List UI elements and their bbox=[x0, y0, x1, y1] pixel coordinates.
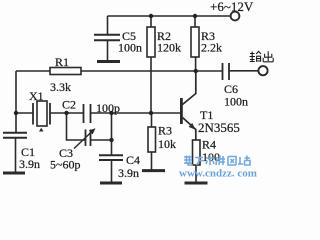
capacitor C5 bbox=[94, 16, 120, 60]
resistor R3 (10k) bbox=[148, 113, 156, 170]
crystal X1 mark bbox=[39, 128, 44, 132]
resistor R1 bbox=[50, 68, 81, 75]
svg-text:100p: 100p bbox=[96, 101, 120, 115]
capacitor C1 bbox=[3, 133, 27, 172]
transistor T1 emitter lead bbox=[183, 118, 196, 141]
transistor T1 emitter arrowhead bbox=[189, 123, 196, 130]
node dot rail/R3 bbox=[193, 14, 197, 18]
node dot rail/R2 bbox=[149, 14, 153, 18]
arrowhead of C3 variable arrow bbox=[89, 128, 96, 134]
ground (R4) bbox=[185, 182, 208, 185]
svg-text:100: 100 bbox=[202, 150, 220, 164]
svg-text:R3: R3 bbox=[158, 124, 172, 138]
wire R1 line / collector line bbox=[16, 70, 223, 72]
capacitor C3 (variable) bbox=[74, 130, 93, 149]
svg-text:10k: 10k bbox=[158, 137, 176, 151]
capacitor C6 bbox=[223, 63, 259, 80]
watermark line 1 bbox=[184, 156, 250, 166]
svg-text:X1: X1 bbox=[29, 89, 44, 103]
svg-text:100n: 100n bbox=[224, 95, 248, 109]
svg-text:R1: R1 bbox=[55, 55, 69, 69]
node dot collector bbox=[194, 69, 198, 73]
resistor R3 (2.2k) bbox=[191, 16, 199, 71]
svg-text:C4: C4 bbox=[126, 153, 140, 167]
crystal X1 bbox=[33, 101, 84, 126]
svg-text:120k: 120k bbox=[157, 41, 181, 55]
svg-text:2N3565: 2N3565 bbox=[198, 120, 240, 135]
resistor R4 bbox=[193, 140, 201, 182]
svg-text:3.9n: 3.9n bbox=[19, 157, 40, 171]
label output (Chinese) bbox=[250, 51, 274, 62]
wire crystal line bbox=[16, 112, 33, 114]
svg-text:www.cndzz. com: www.cndzz. com bbox=[179, 168, 257, 180]
svg-text:3.9n: 3.9n bbox=[118, 166, 139, 180]
wire R2 bottom to base node bbox=[150, 57, 152, 113]
ground (C4) bbox=[100, 182, 122, 185]
node dot base bbox=[149, 111, 153, 115]
transistor T1 collector lead bbox=[183, 71, 196, 105]
node dot C2/C3 return bbox=[109, 111, 113, 115]
svg-text:C2: C2 bbox=[62, 98, 76, 112]
capacitor C4 bbox=[99, 155, 123, 182]
wire C4 branch bbox=[111, 140, 113, 155]
ground (C1) bbox=[3, 172, 25, 175]
ground (R3 10k) bbox=[142, 169, 165, 172]
capacitor C2 bbox=[84, 104, 181, 123]
svg-text:2.2k: 2.2k bbox=[201, 41, 222, 55]
output terminal circle bbox=[258, 66, 267, 75]
node dot left rail/crystal bbox=[14, 111, 18, 115]
svg-text:100n: 100n bbox=[118, 41, 142, 55]
transistor T1 base bar bbox=[180, 98, 183, 124]
node dot X1/C3 bbox=[64, 111, 68, 115]
wire left rail bbox=[15, 71, 17, 133]
wire C3 branch bbox=[67, 113, 112, 140]
resistor R2 bbox=[147, 16, 155, 57]
wire top supply rail bbox=[108, 15, 231, 17]
svg-text:3.3k: 3.3k bbox=[50, 80, 71, 94]
svg-text:5~60p: 5~60p bbox=[50, 158, 81, 172]
svg-text:+6~12V: +6~12V bbox=[210, 0, 254, 14]
supply terminal circle +6~12V bbox=[231, 12, 240, 21]
node dot C3/C4 bbox=[109, 138, 113, 142]
ground (C5) bbox=[97, 60, 120, 63]
